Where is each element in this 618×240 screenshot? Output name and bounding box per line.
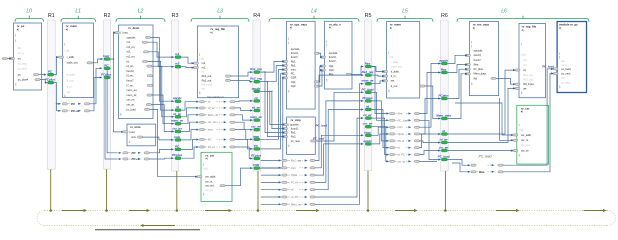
wire L2 PC+4 row to PCplus tag @R3: [149, 157, 173, 160]
svg-text:( clk,: ( clk,: [64, 49, 70, 53]
svg-text:): ): [203, 163, 204, 167]
wire L5 row imm to opcds tag @R6: [419, 64, 439, 128]
wire rv_dech.rs1 to rs1 tag @R3: [147, 42, 173, 57]
staging row PC (L1): [62, 103, 67, 105]
wire PC tag @R3 to L3 row: [181, 140, 197, 150]
svg-text:csr_wr,: csr_wr,: [127, 103, 135, 107]
svg-text:en,: en,: [18, 57, 22, 60]
wire rv_dech.rs2 to rs2 tag @R3: [148, 52, 173, 67]
wire L5 row PC_load to PC_load tag @R6: [419, 120, 439, 159]
wire down to rv_csr.csr_rs: [500, 98, 513, 140]
wire rv_cmp.pc_new to PC_load tag @R5: [315, 92, 362, 141]
wire imm tag @R4 to rv_ops_mux.imm: [260, 70, 283, 140]
svg-text:R6: R6: [441, 13, 448, 19]
svg-text:d_out,: d_out,: [67, 78, 74, 82]
feedback loop top dotted line: [45, 210, 608, 212]
staging row imm (L5): [386, 126, 389, 128]
module rv_cmp (branch compare, stage L4): [287, 117, 316, 154]
wire rv_csr.csr_out to CSR tag @R4: [225, 168, 252, 186]
svg-text:};: };: [519, 153, 521, 157]
feedback loop bottom dotted line: [45, 225, 608, 227]
svg-text:opcode,: opcode,: [291, 47, 301, 51]
svg-text:pc_plus4: pc_plus4: [18, 77, 29, 81]
svg-text:we: we: [523, 87, 527, 90]
svg-text:(: (: [559, 55, 560, 59]
wire imm tag @R3 to L3 row: [181, 130, 197, 140]
svg-text:imm: imm: [291, 166, 297, 170]
wire down to rv_csr.csr_addr: [455, 103, 512, 135]
svg-text:funct3,: funct3,: [291, 51, 299, 55]
wire opcds tag @R5 to L5 row Opds: [372, 134, 388, 144]
svg-text:rv_ops_mux: rv_ops_mux: [290, 22, 307, 26]
staging row PC+4 (L1): [62, 110, 67, 112]
wire PC tag to rv_mem.i_addr: [54, 57, 58, 75]
svg-text:rs2,: rs2,: [202, 66, 207, 70]
staging row PC (L2): [119, 152, 122, 154]
staging row PC+4 (L4): [279, 181, 282, 183]
svg-text:rd_PC: rd_PC: [291, 195, 299, 199]
svg-text:( clk,: ( clk,: [388, 55, 394, 59]
wire csr_wr tag @R3 to L3 row: [181, 122, 197, 131]
wire rv_alu_v.Res to Res tag @R5: [351, 67, 362, 75]
svg-text:#(: #(: [559, 26, 561, 30]
staging row csr_wr (L3): [196, 121, 199, 123]
svg-text:L2: L2: [138, 9, 144, 15]
svg-text:rd_PC: rd_PC: [398, 153, 406, 157]
wire into L4 row rd_PC: [261, 196, 279, 198]
wire L5 row csr_wr tail: [419, 160, 437, 162]
svg-text:csr_out,: csr_out,: [205, 184, 215, 188]
wire L5 row Res to Res tag @R6: [419, 73, 439, 114]
svg-text:funct3,: funct3,: [329, 55, 337, 59]
wire Rs2_reg tag @R5 to rv_mem.d_in: [372, 75, 384, 76]
feedback loop left u-turn: [37, 211, 44, 226]
svg-text:csr_rs,: csr_rs,: [521, 138, 529, 142]
wire L2 PC row to PC tag @R3: [149, 149, 173, 152]
wire PC_load tag @R5 to L5 row PC_load: [372, 92, 388, 120]
wire rv_mem.d_out to Mem_data tag @R6: [425, 86, 440, 119]
svg-text:Rd_input,: Rd_input,: [202, 82, 213, 86]
svg-text:rs2,: rs2,: [127, 50, 132, 54]
svg-text:): ): [559, 52, 560, 56]
svg-text:Rs1,: Rs1,: [291, 131, 297, 135]
module rv_mem (instruction memory, stage L1): [63, 23, 94, 98]
module rv_reg_file (stage L3): [197, 26, 238, 98]
svg-text:pc_new: pc_new: [291, 140, 300, 143]
svg-text:( clk,: ( clk,: [199, 57, 205, 61]
svg-text:rst_n,: rst_n,: [561, 63, 568, 67]
svg-text:PC: PC: [208, 138, 212, 142]
wire L6 row PC_load to module rv_pc.pc_load: [503, 69, 553, 165]
wire into L4 row imm: [261, 167, 279, 169]
svg-text:imm: imm: [208, 128, 214, 132]
staging row PC_load (L5): [386, 119, 389, 121]
clock drop line below R1: [50, 169, 52, 210]
feedback flow arrow left (return path): [144, 225, 176, 227]
svg-text:csr_rs,: csr_rs,: [205, 179, 213, 183]
svg-text:csr_out,: csr_out,: [521, 143, 531, 147]
svg-text:rs1,: rs1,: [202, 61, 207, 65]
wire rv_dech.rd to rd tag @R3: [147, 61, 173, 110]
staging row Rs2_reg (L4): [279, 159, 282, 161]
svg-text:): ): [519, 123, 520, 127]
wire PC+4 tag @R3 to L3 row: [181, 147, 197, 158]
svg-text:): ): [64, 42, 65, 46]
svg-text:rs1,: rs1,: [127, 40, 132, 44]
svg-text:f7_en,: f7_en,: [127, 83, 134, 87]
svg-text:} ( inst,: } ( inst,: [120, 31, 128, 35]
clock drop line below R3: [176, 171, 178, 211]
module rv_alu_v (stage L4): [325, 21, 353, 89]
wire rv_ops_mux.Op2 to rv_alu_v.Op2: [319, 70, 323, 86]
staging row csr_wr (L5): [386, 160, 389, 162]
svg-text:{ inst,: { inst,: [129, 130, 136, 134]
wire into L4 row Opds: [261, 174, 279, 176]
feedback flow arrow right: [584, 210, 604, 212]
svg-text:(: (: [15, 38, 16, 42]
wire rd tag @R6 to rv_reg_file.rd: [448, 70, 515, 134]
wire into L6 row Res: [452, 163, 468, 172]
wire rv_res_mux.Rd to rv_reg_file.Rd_input: [496, 78, 515, 84]
svg-text:PC_load: PC_load: [479, 155, 492, 159]
svg-text:};: };: [288, 89, 290, 93]
svg-text:PC+4: PC+4: [208, 145, 215, 149]
svg-text:imm,: imm,: [291, 68, 297, 72]
svg-text:Rs1,: Rs1,: [291, 59, 297, 63]
svg-text:Decode&funct: Decode&funct: [207, 95, 224, 99]
module rv_csr (stage L6): [517, 105, 549, 164]
wire PCplus tag @R2 down to L2 PC+4 row: [105, 79, 118, 159]
stage brace L0: [15, 19, 44, 22]
wire rs2 tag to rv_reg_file.rs2: [181, 66, 193, 69]
svg-text:Opds: Opds: [291, 173, 298, 177]
svg-text:csr_addr,: csr_addr,: [205, 175, 216, 179]
svg-text:funct7,: funct7,: [329, 59, 337, 63]
svg-text:clk,: clk,: [561, 59, 565, 63]
svg-text:csr_wr: csr_wr: [398, 159, 406, 163]
staging row Opds (L4): [279, 174, 282, 176]
svg-text:Rd_input,: Rd_input,: [523, 82, 534, 86]
svg-text:#(: #(: [329, 26, 331, 30]
svg-text:Rs2_out,: Rs2_out,: [202, 78, 213, 82]
svg-text:pc,: pc,: [18, 74, 22, 77]
module rv_csr (stage L3): [201, 152, 232, 201]
svg-text:};: };: [521, 91, 523, 95]
svg-text:rs2,: rs2,: [523, 63, 528, 67]
svg-text:opcode,: opcode,: [127, 35, 137, 39]
wire PC tag @R2 down to L2 PC row: [107, 70, 117, 153]
wire rv_ops_mux.Op1 to rv_alu_v.Op1: [319, 66, 322, 82]
feedback flow arrow right: [395, 210, 414, 212]
svg-text:pc_next,: pc_next,: [561, 71, 571, 75]
stage brace L2: [116, 19, 165, 22]
clock drop line below R4: [257, 171, 259, 211]
svg-text:rs1,: rs1,: [523, 58, 528, 62]
wire rv_ops_mux.funct3 to rv_alu_v.funct3: [319, 53, 322, 57]
stage brace L1: [61, 19, 96, 22]
svg-text:rd,: rd,: [523, 68, 526, 72]
svg-text:};: };: [199, 90, 201, 94]
svg-text:rs2_en,: rs2_en,: [127, 55, 136, 59]
svg-text:PC_load: PC_load: [316, 124, 328, 128]
feedback flow arrow right: [129, 210, 147, 212]
wire L5 row PC+4 to rd_wr tag @R6: [419, 141, 439, 143]
wire rv_mem.code_out to Instr tag @R2: [92, 59, 102, 63]
svg-text:): ): [199, 53, 200, 57]
svg-text:Op2: Op2: [291, 84, 296, 88]
wire rv_dech.csr_wr to csr_wr tag @R3: [151, 105, 173, 132]
svg-text:d_out: d_out: [391, 84, 398, 88]
svg-text:we,: we,: [67, 91, 71, 94]
wire csr_wr tag @R6 to rv_csr.csr_wr: [448, 150, 513, 152]
svg-text:};: };: [559, 85, 561, 89]
staging row Opds (L5): [386, 133, 389, 135]
clock drop line below R6: [444, 171, 446, 211]
wire Res tag @R5 to rv_mem.d_addr: [372, 67, 384, 72]
svg-text:L5: L5: [402, 9, 408, 15]
svg-text:): ): [471, 40, 472, 44]
svg-text:d_in,: d_in,: [67, 84, 73, 88]
svg-text:Op1,: Op1,: [291, 80, 297, 84]
svg-text:code_out,: code_out,: [391, 64, 403, 68]
svg-text:pc_next,: pc_next,: [18, 67, 28, 71]
wire L4 row Rs2_reg to Rs2_reg tag @R5: [315, 75, 363, 160]
stage brace L5: [377, 19, 433, 22]
svg-text:opcode,: opcode,: [329, 51, 339, 55]
staging row Mem_wr (L4): [279, 203, 282, 205]
svg-text:clk,: clk,: [18, 46, 22, 50]
wire rv_reg_file.Rs1_out to Rs1_reg tag @R4: [230, 72, 251, 76]
svg-text:Res: Res: [329, 72, 334, 76]
wire L4 row Mem_wr to mem_wr tag @R5: [315, 84, 363, 205]
wire L4 row rd_PC to rd_wr tag @R5: [315, 118, 363, 197]
svg-text:rst_n,: rst_n,: [18, 51, 25, 55]
feedback flow arrow right: [205, 210, 229, 212]
svg-text:{ opcode,: { opcode,: [288, 123, 299, 127]
staging row Mem_wr (L3): [196, 114, 199, 116]
wire csr_wr tag @R5 to L5 row csr_wr: [372, 127, 388, 162]
input feed to rv_pc.en: [2, 58, 7, 60]
wire L1 PC+4 row to PCplus tag @R2: [89, 78, 101, 111]
wire L3 row Mem_wr to tag @R4: [235, 115, 252, 120]
svg-text:};: };: [471, 81, 473, 85]
staging row rd (L3): [196, 101, 199, 103]
wire into L4 row Rs2_reg: [261, 160, 279, 162]
wire Instr tag to rv_imm.inst: [113, 58, 115, 60]
svg-text:i_addr,: i_addr,: [66, 55, 74, 59]
svg-text:#(: #(: [521, 110, 523, 114]
wire rd tag @R5 to L5 row rd: [372, 110, 388, 148]
svg-text:};: };: [120, 112, 122, 116]
module rv_dech (decoder, stage L2): [119, 25, 154, 118]
wire L3 row PC+4 to tag @R4: [235, 147, 252, 159]
svg-text:R5: R5: [365, 13, 372, 19]
wire Rs1_reg tag @R4 to rv_cmp.Rs1: [260, 72, 284, 133]
svg-text:i_addr,: i_addr,: [390, 60, 398, 64]
svg-text:PC_load: PC_load: [542, 64, 554, 68]
clock drop line below R2: [106, 169, 108, 210]
wire rv_pc.pc_plus4 to PCplus tag @R1: [40, 80, 46, 83]
svg-text:pc_load: pc_load: [127, 107, 137, 111]
svg-text:Opds: Opds: [398, 132, 405, 136]
wire rv_pc.pc to PC tag @R1: [38, 74, 45, 76]
feedback flow arrow right: [62, 210, 84, 212]
svg-text:Rd: Rd: [474, 76, 478, 80]
svg-text:csr_wr: csr_wr: [208, 120, 216, 124]
wire rv_dech.pc_load down toward rv_csr: [149, 109, 157, 176]
svg-text:#(: #(: [66, 27, 68, 31]
svg-text:{ clk,: { clk,: [203, 167, 209, 171]
staging row PC+4 (L3): [196, 146, 199, 148]
wire PCplus tag @R5 to L5 row PC+4: [372, 101, 388, 141]
wire into L4 row rd: [261, 189, 279, 191]
wire L3 row csr_wr to tag @R4: [235, 122, 252, 130]
wire rv_dech.rd_wr to rd_wr tag @R3: [152, 66, 173, 117]
svg-text:Res: Res: [479, 170, 485, 174]
wire L4 row Opds to opcds tag @R5: [315, 144, 363, 175]
svg-text:{ clk,: { clk,: [519, 128, 525, 132]
wire Instr tag to rv_dech.inst: [110, 33, 114, 59]
svg-text:opcode,: opcode,: [474, 49, 484, 53]
stage brace L4: [269, 19, 359, 22]
wire opcds tag @R4 to rv_cmp.funct3: [260, 91, 284, 128]
svg-text:Op2,: Op2,: [329, 68, 335, 72]
svg-text:mem_en,: mem_en,: [127, 89, 138, 92]
svg-text:pc_load,: pc_load,: [561, 67, 571, 71]
staging row rd_PC (L4): [279, 196, 282, 198]
staging row PC (L3): [196, 138, 199, 140]
wire CSR tag @R4 to rv_ops_mux.CSR: [260, 78, 283, 168]
svg-text:};: };: [129, 140, 131, 144]
svg-text:#(: #(: [290, 26, 292, 30]
clock drop line below R5: [367, 171, 369, 211]
svg-text:d_addr,: d_addr,: [67, 72, 76, 76]
svg-text:): ): [288, 36, 289, 40]
svg-text:Res: Res: [398, 112, 403, 116]
svg-text:L1: L1: [75, 9, 81, 15]
svg-text:): ): [521, 42, 522, 46]
svg-text:imm: imm: [398, 125, 404, 129]
wire L3 row rd_wr to tag @R4: [235, 108, 252, 111]
wire L3 row PC to tag @R4: [235, 140, 252, 149]
svg-text:rs1_en,: rs1_en,: [127, 45, 136, 49]
svg-text:Op1,: Op1,: [329, 64, 335, 68]
svg-text:};: };: [388, 89, 390, 93]
module rv_ops_mux (stage L4): [287, 21, 316, 109]
svg-text:R2: R2: [104, 13, 111, 19]
svg-text:funct3,: funct3,: [291, 127, 299, 131]
svg-text:rv_res_mux: rv_res_mux: [473, 23, 490, 27]
svg-text:pc,: pc,: [561, 77, 565, 80]
svg-text:d_addr,: d_addr,: [391, 69, 400, 73]
staging row rd_PC (L5): [386, 154, 389, 156]
svg-text:rv_cmp: rv_cmp: [291, 118, 302, 122]
wire Mem_data tag @R6 to rv_res_mux.Mem_data: [448, 74, 467, 119]
wire PCplus tag @R6 to rv_res_mux.Pc_plus: [448, 69, 467, 98]
svg-text:module rv_pc: module rv_pc: [559, 23, 578, 27]
svg-text:( clk,: ( clk,: [521, 53, 527, 57]
svg-text:#(: #(: [522, 28, 524, 32]
svg-text:mem_wr,: mem_wr,: [127, 93, 138, 97]
wire into L4 row PC+4: [261, 181, 279, 183]
svg-text:(: (: [326, 43, 327, 47]
feedback flow arrow right: [296, 210, 316, 212]
svg-text:funct7,: funct7,: [474, 58, 482, 62]
staging row rd (L4): [279, 189, 282, 191]
staging row imm (L3): [196, 129, 199, 131]
svg-text:#(: #(: [17, 27, 19, 31]
wire mem_wr tag @R5 to rv_mem.we: [372, 81, 384, 84]
wire L1 PC row to PC tag @R2: [89, 68, 101, 104]
wire rd_wr tag @R3 to L3 row: [181, 108, 197, 117]
svg-text:csr_wr: csr_wr: [521, 149, 529, 153]
svg-text:L6: L6: [501, 9, 507, 15]
svg-text:R3: R3: [172, 13, 179, 19]
svg-text:Rs1_out,: Rs1_out,: [202, 74, 213, 78]
top-level module rv_pc (stage L6): [557, 22, 586, 93]
svg-text:Rs1_out,: Rs1_out,: [523, 73, 534, 77]
svg-text:#(: #(: [473, 26, 475, 30]
svg-text:};: };: [288, 143, 290, 147]
wire L3 row imm to tag @R4: [235, 130, 252, 140]
svg-text:};: };: [326, 78, 328, 82]
wire L6 row Res to module rv_pc.pc_next: [503, 74, 553, 172]
feedback loop right u-turn: [607, 211, 616, 226]
wire rs1 tag to rv_reg_file.rs1: [181, 57, 193, 63]
svg-text:R4: R4: [253, 13, 260, 19]
svg-text:code_out,: code_out,: [67, 61, 79, 65]
feedback flow arrow right: [496, 210, 516, 212]
svg-text:Rs2,: Rs2,: [291, 135, 297, 139]
wire L4 row PC+4 to PCplus tag @R5: [315, 101, 363, 182]
wire Rs1_reg tag @R4 to rv_ops_mux.Rs1: [260, 61, 283, 72]
svg-text:rd_wr,: rd_wr,: [127, 64, 134, 68]
svg-text:};: };: [203, 192, 205, 196]
staging row Res (L5): [386, 112, 389, 114]
svg-text:funct3,: funct3,: [474, 53, 482, 57]
wire rv_reg_file.Rs2_out to Rs2_reg tag @R4: [230, 80, 251, 81]
staging row Res (L6): [468, 171, 471, 173]
wire Mem_wr tag @R3 to L3 row: [181, 115, 197, 124]
svg-text:rd,: rd,: [127, 59, 130, 63]
module rv_imm (immediate decode, stage L2): [127, 124, 156, 146]
wire rd_wr tag @R6 to rv_reg_file.we: [448, 88, 515, 142]
svg-text:(: (: [471, 44, 472, 48]
wire L3 row rd to tag @R4: [235, 100, 252, 103]
wire imm tag @R5 to L5 row imm: [372, 127, 388, 135]
svg-text:rv_imm: rv_imm: [130, 125, 141, 129]
svg-text:Mem_data,: Mem_data,: [474, 72, 487, 76]
svg-text:PC+4: PC+4: [71, 109, 79, 113]
svg-text:csr_addr,: csr_addr,: [521, 133, 532, 137]
svg-text:rd,: rd,: [202, 70, 205, 74]
svg-text:#(: #(: [210, 30, 212, 34]
svg-text:L4: L4: [311, 9, 317, 15]
staging row PC+4 (L5): [386, 140, 389, 142]
svg-text:funct7,: funct7,: [291, 55, 299, 59]
wire opds tag @R6 to rv_res_mux.funct3: [448, 55, 467, 63]
svg-text:csr_wr: csr_wr: [205, 188, 213, 192]
svg-text:we: we: [202, 87, 206, 90]
svg-text:L3: L3: [217, 9, 223, 15]
staging row PC_load (L6): [468, 164, 471, 166]
svg-text:funct7,: funct7,: [127, 79, 135, 83]
cut-off bottom edge line: [95, 229, 200, 231]
wire Res tag @R5 to L5 row Res: [372, 67, 388, 114]
wire PC tag @R4 to rv_ops_mux.PC: [260, 74, 283, 149]
wire L4 row rd to rd tag @R5: [315, 110, 363, 190]
svg-text:L0: L0: [26, 9, 32, 15]
